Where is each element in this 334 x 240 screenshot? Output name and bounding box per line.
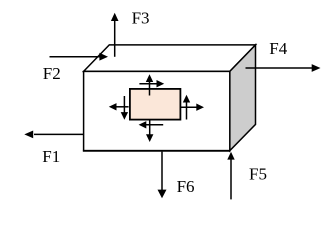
element arrow left shear (down)	[121, 96, 128, 120]
element arrow bottom normal (down)	[146, 120, 153, 142]
force arrow F5 (up, into bottom-right corner)	[227, 152, 234, 200]
force arrow F3 (up, from top face)	[111, 13, 119, 57]
stress element rectangle	[130, 89, 181, 120]
svg-text:F2: F2	[43, 64, 61, 83]
box front face	[84, 71, 230, 150]
element arrow right shear (up)	[183, 95, 190, 120]
element arrow top shear (right)	[139, 80, 164, 87]
force arrow F2 (right, into top-left corner)	[50, 53, 109, 61]
element arrow bottom shear (left)	[139, 121, 164, 128]
svg-text:F4: F4	[269, 39, 287, 58]
svg-text:F1: F1	[42, 147, 60, 166]
svg-text:F6: F6	[177, 177, 195, 196]
box right face	[230, 45, 256, 151]
force arrow F1 (left, from front-left edge)	[24, 131, 84, 139]
element arrow top normal (up)	[146, 74, 153, 95]
element arrow right normal (right)	[181, 104, 204, 111]
force arrow F6 (down, from bottom edge)	[158, 152, 167, 199]
svg-text:F3: F3	[132, 9, 150, 28]
svg-text:F5: F5	[249, 165, 267, 184]
force arrow F4 (right, from right face)	[246, 64, 321, 72]
box top face	[84, 45, 256, 72]
element arrow left normal (left)	[109, 103, 129, 110]
box front bottom edge	[83, 150, 231, 152]
